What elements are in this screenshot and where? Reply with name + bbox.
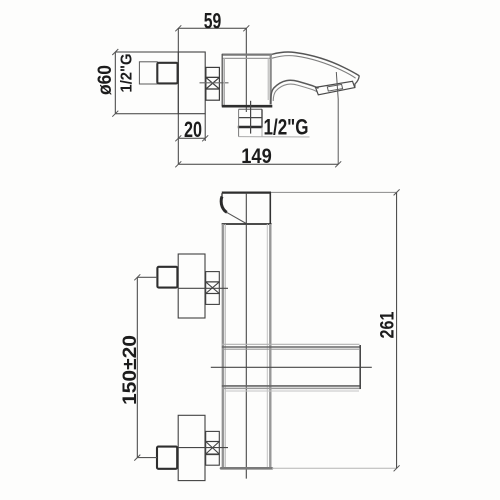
spout (side) top edge (222, 346, 361, 348)
handle left knob (221, 197, 227, 213)
column centerline (245, 193, 247, 479)
tick 149 right (335, 161, 341, 167)
handle top (222, 192, 271, 194)
spout underside inner (273, 84, 317, 101)
column bottom edge (221, 467, 272, 470)
svg-text:ø60: ø60 (94, 65, 116, 95)
spout top inner shadow (222, 348, 359, 350)
dimension 150+-20 (136, 277, 138, 457)
svg-text:149: 149 (241, 144, 272, 168)
svg-text:1/2"G: 1/2"G (118, 54, 135, 93)
column right edge (269, 224, 271, 469)
tick d60 top (112, 49, 118, 55)
tick 150 bottom (134, 455, 140, 461)
svg-text:1/2"G: 1/2"G (264, 114, 309, 139)
261 bottom extension (272, 467, 397, 469)
connection centerline (250, 101, 252, 134)
tick 261 top (394, 189, 400, 195)
bottom wall axis (137, 457, 157, 459)
spout bottom shadow (222, 387, 361, 389)
union axis line (200, 82, 229, 84)
bottom connection square 1/2G (plan) (238, 109, 310, 137)
top wall connection: nut (157, 267, 177, 288)
tick 59 left (175, 25, 181, 31)
extension from aerator (336, 72, 338, 165)
top wall axis (137, 276, 157, 278)
spout tip cap (355, 76, 360, 88)
top mixer axis (178, 287, 228, 289)
eccentric union (plan) (206, 67, 220, 100)
spout bottom edge (222, 385, 361, 387)
svg-text:261: 261 (377, 311, 399, 338)
top eccentric union (206, 272, 220, 305)
extension line / body centerline vertical (245, 28, 247, 112)
dimension 20 (204, 114, 206, 141)
mixer body (plan) (222, 54, 272, 106)
extension line / wall face (left vertical) (177, 28, 179, 164)
bottom eccentric union (206, 431, 220, 465)
spout bottom far shadow (225, 390, 359, 392)
body top edge (side) (222, 223, 272, 225)
bottom wall connection: escutcheon (178, 415, 205, 480)
tick 59 right (243, 25, 249, 31)
spout underside outer (271, 80, 319, 104)
tick 20 left (175, 135, 181, 141)
svg-text:20: 20 (184, 117, 202, 142)
dimension 59 line (178, 27, 246, 29)
svg-text:150±20: 150±20 (119, 335, 141, 405)
bottom wall connection: nut (157, 447, 177, 469)
spout right edge (359, 345, 361, 389)
handle right edge (269, 193, 271, 224)
spout top curve inner (272, 56, 356, 79)
tick 149 left (175, 161, 181, 167)
tick d60 bottom (112, 111, 118, 117)
handle left edge stub (221, 193, 223, 197)
column left edge (222, 224, 224, 469)
aerator inner face (327, 84, 342, 91)
tick 261 bottom (394, 465, 400, 471)
spout (side) top far edge (222, 343, 360, 345)
dimension 261 (396, 192, 398, 468)
aerator body (316, 81, 355, 95)
bottom mixer axis (178, 447, 228, 449)
hose nut (157, 63, 177, 84)
dimension d60 vertical line (115, 52, 178, 114)
tick 150 top (134, 274, 140, 280)
dimension 149 (178, 163, 338, 165)
wall escutcheon plate (plan) (178, 52, 205, 114)
261 top extension (271, 191, 397, 193)
tick 20 right (202, 135, 208, 141)
handle diagonal (227, 212, 247, 223)
top wall connection: escutcheon (178, 254, 205, 318)
spout centerline (211, 366, 372, 368)
inlet pipe stub (139, 62, 157, 84)
svg-text:59: 59 (204, 9, 222, 34)
spout top curve outer (272, 52, 359, 76)
